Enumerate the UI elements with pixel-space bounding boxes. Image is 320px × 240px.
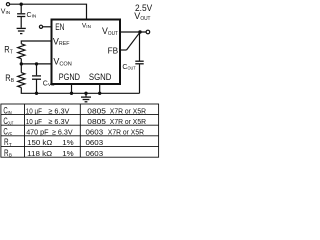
ground rail stem [85,93,87,97]
wire VIN top rail [10,4,87,19]
node CVC tap junction [35,62,38,65]
capacitor CIN stem top [20,4,22,13]
node rail SGND junction [98,92,101,95]
svg-text:OUT: OUT [8,121,14,127]
wire VOUT output [121,31,147,33]
capacitor CIN plates [17,13,25,15]
wire FB stub [121,49,127,51]
node output junction [138,30,141,33]
svg-text:0603: 0603 [86,128,104,137]
table borders [1,104,159,157]
capacitor CVC plates [32,75,41,77]
svg-text:0603: 0603 [86,138,104,147]
svg-text:T: T [10,50,13,56]
resistor RT [18,44,25,59]
wire VCON [21,63,51,65]
svg-text:PGND: PGND [59,72,80,82]
wire PGND down [71,85,73,94]
wire node A down to RB [20,64,22,73]
wire SGND down [99,85,101,94]
capacitor CVC stem bottom [36,80,38,94]
capacitor CIN stem bottom [20,17,22,28]
capacitor COUT stem top [139,32,141,61]
capacitor COUT plates [135,60,143,62]
wire VREF from RT to box [21,41,51,44]
wire EN stub [43,26,52,28]
svg-text:0603: 0603 [86,149,104,158]
ground symbol CIN [17,27,26,29]
wire RT to node A [20,59,22,64]
svg-text:150 kΩ: 150 kΩ [27,138,52,147]
svg-text:SGND: SGND [89,72,112,82]
terminal VIN input [6,3,9,6]
svg-text:B: B [9,153,12,159]
wire RB to ground rail [21,88,139,94]
node rail CVC junction [35,92,38,95]
ground symbol rail [81,96,91,98]
op-amp U1 regulator box [52,20,121,85]
node A RT RB VCON junction [20,62,23,65]
svg-text:≥ 6.3V: ≥ 6.3V [52,128,73,137]
svg-text:X7R or X5R: X7R or X5R [110,106,147,115]
svg-text:≥ 6.3V: ≥ 6.3V [48,117,70,126]
svg-text:X7R or X5R: X7R or X5R [108,128,145,137]
node VIN junction [20,2,23,5]
capacitor CVC stem top [36,64,38,75]
terminal VOUT output [146,30,150,34]
svg-text:470 pF: 470 pF [26,128,49,137]
svg-text:1%: 1% [62,149,74,158]
svg-text:EN: EN [55,22,64,32]
svg-text:FB: FB [108,45,119,55]
svg-text:0805: 0805 [87,117,106,126]
wire FB diagonal to output node [127,32,140,50]
node rail ground junction [84,92,87,95]
svg-text:0805: 0805 [87,106,106,115]
resistor RB [18,73,25,88]
svg-text:VIN: VIN [82,22,91,29]
svg-text:IN: IN [8,110,13,116]
svg-text:≥ 6.3V: ≥ 6.3V [48,106,70,115]
svg-text:X7R or X5R: X7R or X5R [110,117,147,126]
terminal EN [39,25,42,28]
svg-text:118 kΩ: 118 kΩ [27,149,52,158]
svg-text:1%: 1% [62,138,74,147]
svg-text:T: T [9,142,12,148]
svg-text:10 µF: 10 µF [26,117,42,126]
node rail PGND junction [70,92,73,95]
capacitor COUT stem bottom [139,64,141,93]
svg-text:10 µF: 10 µF [26,106,42,115]
